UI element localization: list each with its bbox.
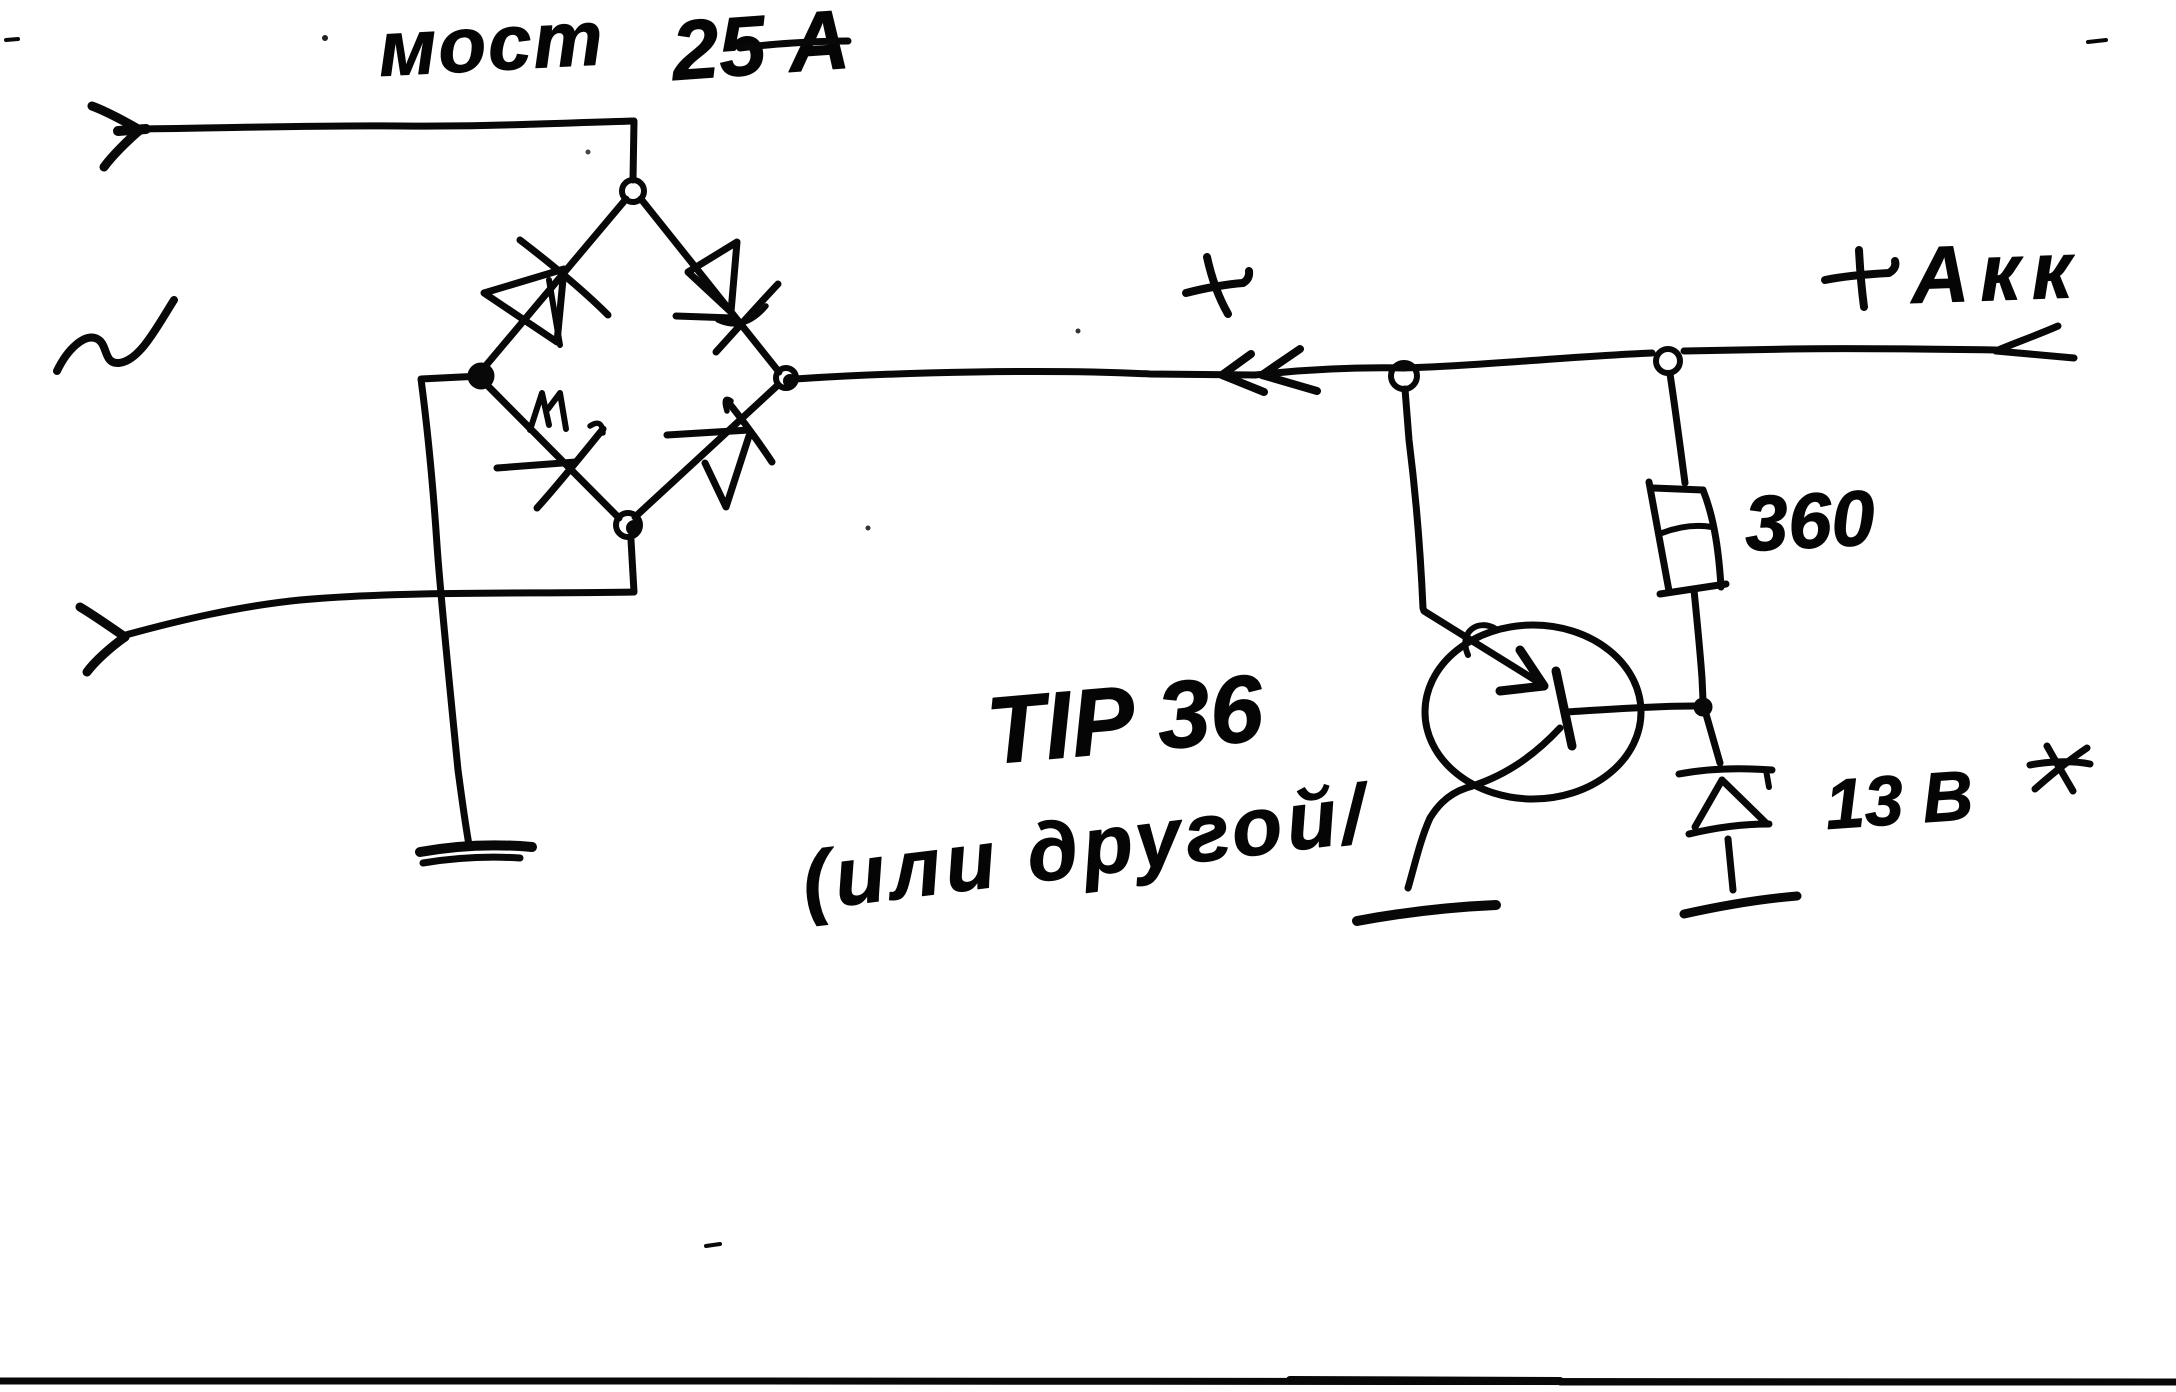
- label TIP 36: [983, 655, 1269, 785]
- diode D1 (bridge top-left arm): [483, 199, 626, 369]
- AC input terminal 1 (top left arrow): [92, 106, 146, 167]
- wire: AC input 1 to bridge top node: [136, 121, 634, 180]
- bridge node top (AC terminal): [622, 180, 644, 202]
- wire: transistor collector to ground: [1408, 728, 1560, 888]
- arrow: battery feed direction: [1996, 326, 2074, 358]
- wire: node B down to resistor: [1670, 374, 1685, 483]
- current direction chevrons << on + rail: [1222, 349, 1317, 392]
- svg-text:(или другой/: (или другой/: [797, 768, 1376, 928]
- svg-text:Акк: Акк: [1907, 225, 2084, 320]
- wire: node C to zener: [1706, 714, 1720, 763]
- label: мост 25 А (bridge 25 A): [376, 0, 852, 98]
- svg-text:TIP 36: TIP 36: [983, 655, 1269, 785]
- bridge node right (+ output): [776, 368, 796, 388]
- wire: AC input 2 to bridge bottom node: [122, 540, 634, 636]
- diode D4 (bridge bottom-right arm): [635, 385, 778, 517]
- svg-text:мост: мост: [376, 0, 606, 93]
- bridge node bottom (AC terminal): [616, 513, 641, 537]
- label + (rail polarity): [1186, 257, 1249, 314]
- ground GND1 (bridge): [420, 845, 532, 863]
- ground GND2 (transistor collector): [1357, 905, 1496, 921]
- wire: resistor bottom to node C: [1694, 590, 1703, 700]
- svg-text:13 В: 13 В: [1823, 756, 1976, 844]
- zener diode VD1 (13 V): [1679, 769, 1772, 890]
- wire: node A down to transistor emitter: [1405, 389, 1535, 680]
- node C (base junction): [1695, 699, 1711, 715]
- bridge node left (AC terminal): [469, 364, 493, 388]
- wire: + rail from bridge right node to battery: [795, 349, 1996, 379]
- label 360: [1742, 473, 1877, 568]
- ground GND3 (zener): [1684, 896, 1797, 914]
- diode D2 (bridge top-right arm): [641, 199, 779, 372]
- label (или другой): [797, 768, 1376, 928]
- transistor Q1 TIP36 (PNP, circle): [1425, 625, 1694, 799]
- label + Акк (battery +): [1825, 225, 2084, 320]
- node B (resistor tap on + rail): [1656, 349, 1680, 373]
- diode D3 (bridge bottom-left arm): [486, 384, 619, 518]
- AC input terminal 2 (bottom left arrow): [80, 607, 125, 672]
- wire: bridge left node to ground: [421, 376, 481, 845]
- resistor R1 (360): [1649, 482, 1726, 594]
- label 13 В *: [1823, 746, 2090, 844]
- AC source symbol ~: [57, 300, 174, 371]
- svg-text:360: 360: [1742, 473, 1877, 568]
- node A (emitter tap on + rail): [1391, 363, 1417, 389]
